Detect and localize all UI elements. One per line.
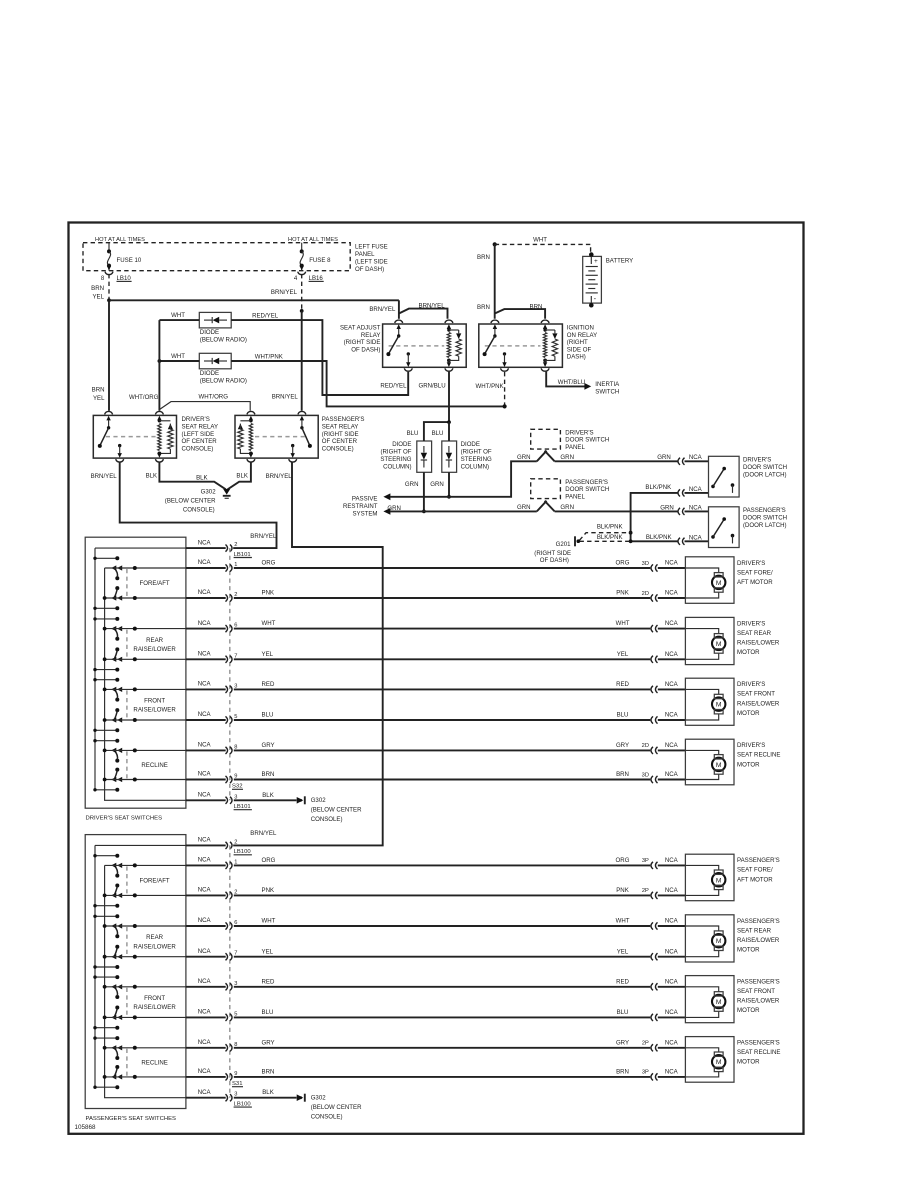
svg-text:2P: 2P [642,888,649,894]
svg-text:LB16: LB16 [309,275,324,282]
svg-text:INERTIA: INERTIA [595,381,620,388]
svg-text:DRIVER'S: DRIVER'S [565,429,593,436]
svg-text:NCA: NCA [198,539,212,546]
svg-text:NCA: NCA [198,917,212,924]
svg-text:FUSE 10: FUSE 10 [117,257,142,264]
svg-text:NCA: NCA [665,771,679,778]
svg-text:BLU: BLU [262,1009,274,1016]
svg-text:YEL: YEL [262,948,274,955]
svg-text:BLU: BLU [262,712,274,719]
svg-text:BRN: BRN [262,1069,275,1076]
svg-text:CONSOLE): CONSOLE) [322,446,354,453]
svg-text:LEFT FUSE: LEFT FUSE [355,244,388,251]
svg-text:FRONT: FRONT [144,698,165,705]
svg-text:RECLINE: RECLINE [141,762,167,769]
svg-text:(BELOW CENTER: (BELOW CENTER [311,1104,362,1111]
svg-text:SEAT FRONT: SEAT FRONT [737,691,775,698]
svg-text:PNK: PNK [262,887,275,894]
svg-text:(RIGHT SIDE: (RIGHT SIDE [344,339,381,346]
svg-text:BLU: BLU [617,712,629,719]
svg-text:NCA: NCA [665,1039,679,1046]
svg-text:NCA: NCA [198,620,212,627]
svg-text:M: M [716,999,722,1006]
svg-text:BATTERY: BATTERY [606,258,634,265]
svg-text:MOTOR: MOTOR [737,649,760,656]
svg-text:NCA: NCA [689,486,703,493]
svg-text:BRN/YEL: BRN/YEL [272,394,299,401]
svg-text:BRN/YEL: BRN/YEL [91,473,118,480]
svg-text:NCA: NCA [198,742,212,749]
svg-text:SEAT FRONT: SEAT FRONT [737,988,775,995]
svg-text:BLU: BLU [432,430,444,437]
svg-text:NCA: NCA [665,742,679,749]
svg-text:G302: G302 [311,1095,327,1102]
svg-text:BRN: BRN [477,304,490,311]
svg-text:NCA: NCA [198,978,212,985]
svg-text:GRY: GRY [616,742,629,749]
svg-text:-: - [594,294,597,303]
svg-text:BLK: BLK [262,792,274,799]
svg-text:DOOR SWITCH: DOOR SWITCH [743,464,787,471]
svg-text:2: 2 [234,542,237,548]
svg-text:NCA: NCA [198,887,212,894]
svg-text:YEL: YEL [617,651,629,658]
svg-text:BRN/YEL: BRN/YEL [419,303,446,310]
svg-text:(LEFT SIDE: (LEFT SIDE [182,431,215,438]
svg-text:WHT: WHT [616,620,630,627]
svg-text:WHT/ORG: WHT/ORG [129,394,159,401]
svg-text:NCA: NCA [198,1068,212,1075]
svg-text:GRN: GRN [387,505,401,512]
svg-text:BRN/YEL: BRN/YEL [271,289,298,296]
svg-text:BRN/YEL: BRN/YEL [369,306,396,313]
svg-text:PASSENGER'S: PASSENGER'S [565,479,608,486]
svg-text:NCA: NCA [665,978,679,985]
svg-text:M: M [716,641,722,648]
svg-text:DIODE: DIODE [200,370,219,377]
svg-text:GRN: GRN [657,454,671,461]
svg-text:2: 2 [234,839,237,845]
svg-text:2P: 2P [642,1041,649,1047]
svg-text:NCA: NCA [198,711,212,718]
svg-text:GRN/BLU: GRN/BLU [419,383,446,390]
svg-text:RAISE/LOWER: RAISE/LOWER [133,646,176,653]
svg-text:M: M [716,580,722,587]
svg-text:WHT: WHT [533,237,547,244]
svg-text:NCA: NCA [198,651,212,658]
svg-text:3D: 3D [642,561,649,567]
svg-text:RED: RED [616,978,629,985]
svg-text:BRN: BRN [92,386,105,393]
svg-text:WHT/ORG: WHT/ORG [199,394,229,401]
svg-text:BRN: BRN [262,771,275,778]
svg-text:OF DASH): OF DASH) [540,557,569,564]
svg-text:PANEL: PANEL [565,444,585,451]
svg-text:BLK: BLK [146,472,158,479]
svg-text:RED/YEL: RED/YEL [252,312,279,319]
svg-text:PASSIVE: PASSIVE [352,495,378,502]
svg-text:OF CENTER: OF CENTER [322,438,358,445]
svg-text:WHT: WHT [262,918,276,925]
svg-text:(BELOW CENTER: (BELOW CENTER [311,807,362,814]
svg-text:HOT AT ALL TIMES: HOT AT ALL TIMES [288,237,338,243]
svg-text:3D: 3D [642,772,649,778]
svg-text:DRIVER'S: DRIVER'S [737,742,765,749]
svg-text:REAR: REAR [146,637,164,644]
svg-text:SEAT REAR: SEAT REAR [737,927,772,934]
svg-text:YEL: YEL [262,651,274,658]
svg-text:3P: 3P [642,858,649,864]
svg-text:RAISE/LOWER: RAISE/LOWER [133,707,176,714]
svg-text:MOTOR: MOTOR [737,761,760,768]
svg-text:PANEL: PANEL [565,494,585,501]
svg-text:IGNITION: IGNITION [567,325,594,332]
svg-text:BLK/PNK: BLK/PNK [645,484,671,491]
svg-text:PNK: PNK [262,590,275,597]
svg-text:DRIVER'S: DRIVER'S [182,416,210,423]
svg-text:NCA: NCA [665,918,679,925]
svg-text:WHT/PNK: WHT/PNK [255,353,283,360]
svg-text:FORE/AFT: FORE/AFT [140,580,170,587]
svg-text:BLK/PNK: BLK/PNK [597,524,623,531]
svg-text:RAISE/LOWER: RAISE/LOWER [737,937,780,944]
svg-text:GRN: GRN [430,481,444,488]
svg-text:8: 8 [101,275,105,282]
svg-text:NCA: NCA [665,620,679,627]
svg-text:DASH): DASH) [567,354,586,361]
svg-text:3P: 3P [642,1070,649,1076]
svg-text:GRN: GRN [517,454,531,461]
svg-text:AFT MOTOR: AFT MOTOR [737,876,773,883]
svg-text:BLK: BLK [236,472,248,479]
svg-text:G302: G302 [311,797,327,804]
svg-text:WHT/PNK: WHT/PNK [476,383,504,390]
svg-text:NCA: NCA [198,771,212,778]
svg-text:NCA: NCA [198,1039,212,1046]
svg-text:WHT: WHT [171,312,185,319]
svg-text:LB10: LB10 [117,275,132,282]
svg-text:PASSENGER'S: PASSENGER'S [743,507,786,514]
svg-text:NCA: NCA [665,712,679,719]
svg-text:YEL: YEL [93,395,105,402]
svg-text:NCA: NCA [665,948,679,955]
svg-text:BLK/PNK: BLK/PNK [597,534,623,541]
svg-text:NCA: NCA [198,1089,212,1096]
svg-text:GRY: GRY [262,1039,275,1046]
svg-text:NCA: NCA [665,1069,679,1076]
svg-text:CONSOLE): CONSOLE) [311,816,343,823]
svg-text:GRN: GRN [517,504,531,511]
svg-text:4: 4 [294,275,298,282]
svg-text:DOOR SWITCH: DOOR SWITCH [743,515,787,522]
svg-text:(BELOW RADIO): (BELOW RADIO) [200,377,247,384]
svg-text:MOTOR: MOTOR [737,1059,760,1066]
svg-text:WHT/BLU: WHT/BLU [558,379,585,386]
svg-text:NCA: NCA [689,454,703,461]
svg-text:AFT MOTOR: AFT MOTOR [737,579,773,586]
svg-text:(RIGHT SIDE: (RIGHT SIDE [322,431,359,438]
svg-text:RED/YEL: RED/YEL [380,382,407,389]
svg-text:NCA: NCA [198,559,212,566]
svg-text:REAR: REAR [146,934,164,941]
svg-text:CONSOLE): CONSOLE) [311,1113,343,1120]
svg-text:ORG: ORG [262,857,276,864]
svg-text:SEAT FORE/: SEAT FORE/ [737,867,773,874]
svg-text:NCA: NCA [198,857,212,864]
svg-text:(RIGHT: (RIGHT [567,339,588,346]
svg-text:(DOOR LATCH): (DOOR LATCH) [743,472,787,479]
svg-text:(LEFT SIDE: (LEFT SIDE [355,259,388,266]
svg-text:BRN: BRN [616,771,629,778]
svg-text:SWITCH: SWITCH [595,388,619,395]
svg-text:M: M [716,938,722,945]
svg-text:BRN/YEL: BRN/YEL [250,533,277,540]
svg-text:BLK: BLK [196,474,208,481]
svg-text:COLUMN): COLUMN) [461,463,489,470]
svg-text:NCA: NCA [198,792,212,799]
svg-text:RESTRAINT: RESTRAINT [343,503,378,510]
svg-text:OF CENTER: OF CENTER [182,438,218,445]
svg-text:OF DASH): OF DASH) [351,346,380,353]
svg-text:PANEL: PANEL [355,251,375,258]
svg-text:NCA: NCA [665,1009,679,1016]
svg-text:NCA: NCA [198,1009,212,1016]
svg-text:STEERING: STEERING [461,456,492,463]
svg-text:M: M [716,1059,722,1066]
svg-text:GRY: GRY [616,1039,629,1046]
svg-text:SEAT REAR: SEAT REAR [737,630,772,637]
svg-text:ORG: ORG [262,560,276,567]
svg-text:RAISE/LOWER: RAISE/LOWER [737,998,780,1005]
svg-text:YEL: YEL [617,948,629,955]
svg-text:BRN/YEL: BRN/YEL [266,473,293,480]
svg-text:BRN: BRN [477,254,490,261]
svg-text:RELAY: RELAY [361,332,381,339]
svg-text:RED: RED [262,681,275,688]
svg-text:NCA: NCA [665,560,679,567]
svg-text:MOTOR: MOTOR [737,1007,760,1014]
svg-text:MOTOR: MOTOR [737,946,760,953]
svg-text:RED: RED [616,681,629,688]
svg-text:BLU: BLU [617,1009,629,1016]
svg-text:(RIGHT SIDE: (RIGHT SIDE [534,550,571,557]
svg-text:BRN: BRN [91,285,104,292]
svg-text:GRY: GRY [262,742,275,749]
svg-text:PASSENGER'S: PASSENGER'S [737,979,780,986]
svg-text:DRIVER'S: DRIVER'S [737,560,765,567]
svg-text:DRIVER'S SEAT SWITCHES: DRIVER'S SEAT SWITCHES [86,816,163,822]
svg-text:+: + [594,258,598,265]
svg-text:PASSENGER'S: PASSENGER'S [737,857,780,864]
svg-text:FUSE 8: FUSE 8 [309,257,331,264]
svg-text:MOTOR: MOTOR [737,710,760,717]
svg-text:M: M [716,877,722,884]
svg-text:SEAT RECLINE: SEAT RECLINE [737,1049,780,1056]
svg-text:NCA: NCA [665,857,679,864]
svg-text:RECLINE: RECLINE [141,1060,167,1067]
svg-text:RAISE/LOWER: RAISE/LOWER [737,640,780,647]
svg-text:BLU: BLU [407,430,419,437]
svg-text:COLUMN): COLUMN) [383,463,411,470]
svg-text:GRN: GRN [660,504,674,511]
svg-text:G302: G302 [201,488,217,495]
svg-text:DRIVER'S: DRIVER'S [743,457,771,464]
svg-text:NCA: NCA [665,887,679,894]
svg-text:(BELOW RADIO): (BELOW RADIO) [200,336,247,343]
svg-text:CONSOLE): CONSOLE) [183,507,215,514]
svg-text:(RIGHT OF: (RIGHT OF [461,449,492,456]
svg-text:M: M [716,762,722,769]
svg-text:M: M [716,702,722,709]
svg-text:2D: 2D [642,743,649,749]
svg-text:NCA: NCA [689,534,703,541]
svg-text:WHT: WHT [616,918,630,925]
svg-text:(RIGHT OF: (RIGHT OF [380,449,411,456]
svg-text:SEAT RELAY: SEAT RELAY [182,423,219,430]
svg-text:SEAT FORE/: SEAT FORE/ [737,569,773,576]
svg-text:(BELOW CENTER: (BELOW CENTER [165,498,216,505]
svg-text:SYSTEM: SYSTEM [352,510,377,517]
svg-text:NCA: NCA [665,681,679,688]
svg-text:BRN: BRN [616,1069,629,1076]
svg-text:YEL: YEL [92,294,104,301]
svg-text:NCA: NCA [689,504,703,511]
svg-text:DRIVER'S: DRIVER'S [737,681,765,688]
svg-text:NCA: NCA [198,837,212,844]
svg-text:NCA: NCA [665,590,679,597]
svg-text:FRONT: FRONT [144,995,165,1002]
svg-text:HOT AT ALL TIMES: HOT AT ALL TIMES [95,237,145,243]
svg-text:BRN: BRN [530,303,543,310]
svg-text:NCA: NCA [665,651,679,658]
svg-text:ORG: ORG [616,857,630,864]
svg-text:OF DASH): OF DASH) [355,266,384,273]
svg-text:GRN: GRN [560,454,574,461]
svg-text:FORE/AFT: FORE/AFT [140,878,170,885]
svg-text:NCA: NCA [198,948,212,955]
svg-text:BRN/YEL: BRN/YEL [250,830,277,837]
svg-text:105868: 105868 [75,1124,97,1131]
svg-text:RED: RED [262,978,275,985]
svg-text:BLK/PNK: BLK/PNK [646,534,672,541]
svg-text:2D: 2D [642,591,649,597]
svg-text:WHT: WHT [171,353,185,360]
svg-text:CONSOLE): CONSOLE) [182,446,214,453]
svg-text:RAISE/LOWER: RAISE/LOWER [133,1004,176,1011]
svg-text:WHT: WHT [262,620,276,627]
svg-text:PASSENGER'S: PASSENGER'S [322,416,365,423]
svg-text:(DOOR LATCH): (DOOR LATCH) [743,522,787,529]
svg-text:ON RELAY: ON RELAY [567,332,597,339]
svg-text:NCA: NCA [198,681,212,688]
svg-text:BLK: BLK [262,1089,274,1096]
svg-text:STEERING: STEERING [380,456,411,463]
svg-text:RAISE/LOWER: RAISE/LOWER [133,943,176,950]
svg-text:SIDE OF: SIDE OF [567,346,592,353]
svg-text:G201: G201 [556,541,572,548]
svg-text:ORG: ORG [616,560,630,567]
svg-text:DIODE: DIODE [200,329,219,336]
svg-text:DOOR SWITCH: DOOR SWITCH [565,486,609,493]
svg-text:SEAT RELAY: SEAT RELAY [322,423,359,430]
svg-text:DOOR SWITCH: DOOR SWITCH [565,437,609,444]
svg-text:GRN: GRN [560,504,574,511]
svg-text:GRN: GRN [405,481,419,488]
svg-text:PNK: PNK [616,887,629,894]
svg-text:SEAT RECLINE: SEAT RECLINE [737,752,780,759]
svg-text:NCA: NCA [198,589,212,596]
svg-text:RAISE/LOWER: RAISE/LOWER [737,700,780,707]
svg-text:PASSENGER'S SEAT SWITCHES: PASSENGER'S SEAT SWITCHES [86,1116,177,1122]
svg-text:SEAT ADJUST: SEAT ADJUST [340,325,381,332]
svg-text:DRIVER'S: DRIVER'S [737,620,765,627]
svg-text:PASSENGER'S: PASSENGER'S [737,1040,780,1047]
svg-text:PASSENGER'S: PASSENGER'S [737,918,780,925]
svg-text:DIODE: DIODE [392,441,411,448]
svg-text:DIODE: DIODE [461,441,480,448]
svg-text:PNK: PNK [616,590,629,597]
